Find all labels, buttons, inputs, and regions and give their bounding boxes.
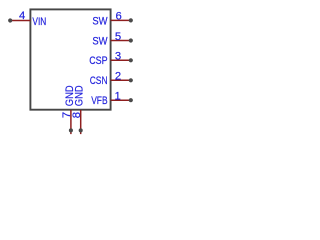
svg-text:2: 2 (115, 71, 121, 83)
pin 3 endpoint dot (129, 58, 133, 62)
pin 1 endpoint dot (129, 98, 133, 102)
svg-text:GND: GND (74, 85, 86, 106)
pin 2 CSN wire (111, 79, 131, 81)
pin 4 VIN wire (10, 20, 30, 22)
svg-text:SW: SW (92, 36, 107, 48)
IC body U1 (30, 9, 110, 109)
pin 7 GND wire (70, 110, 72, 134)
svg-text:6: 6 (115, 11, 121, 23)
pin 7 endpoint dot (69, 128, 73, 132)
svg-text:1: 1 (115, 91, 121, 103)
svg-text:SW: SW (92, 16, 107, 28)
pin 6 SW wire (111, 19, 131, 21)
pin 2 endpoint dot (129, 78, 133, 82)
svg-text:3: 3 (115, 51, 121, 63)
svg-text:CSN: CSN (90, 75, 108, 87)
svg-text:VIN: VIN (32, 16, 46, 28)
svg-text:8: 8 (71, 112, 83, 118)
pin 3 CSP wire (111, 59, 131, 61)
pin 8 GND wire (80, 110, 82, 134)
pin 5 SW wire (111, 40, 131, 42)
svg-text:CSP: CSP (89, 55, 107, 67)
pin 6 endpoint dot (129, 18, 133, 22)
svg-text:5: 5 (115, 31, 121, 43)
svg-text:VFB: VFB (91, 95, 107, 107)
svg-text:4: 4 (19, 10, 25, 22)
pin 1 VFB wire (111, 99, 131, 101)
pin 4 endpoint dot (8, 18, 12, 22)
pin 5 endpoint dot (129, 38, 133, 42)
pin 8 endpoint dot (79, 128, 83, 132)
